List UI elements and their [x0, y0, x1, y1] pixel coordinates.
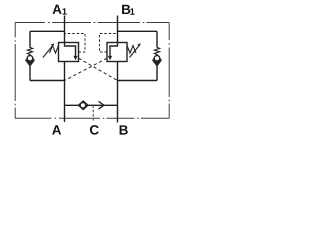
wire right check branch vertical upper	[156, 31, 158, 47]
CB1 pilot line (dashed, from A1)	[65, 34, 86, 53]
check valve V1 (left bypass, spring + ball in seat)	[26, 47, 35, 65]
CB1 adjustment arrow	[43, 43, 54, 57]
port C line (dashed stub)	[92, 105, 94, 122]
CB1 spring	[50, 46, 59, 53]
check valve V2 (right bypass, spring + ball in seat)	[153, 47, 162, 65]
flow direction arrow on bottom line	[99, 101, 105, 109]
wire A1 to A vertical lower	[64, 62, 66, 123]
wire right check branch vertical lower	[156, 64, 158, 80]
port C label	[90, 125, 99, 134]
wire left check branch bottom horizontal	[30, 80, 65, 82]
counterbalance valve CB2 envelope (right)	[107, 43, 127, 62]
CB2 pilot line (dashed, from B1)	[100, 34, 118, 53]
counterbalance valve CB1 envelope (left)	[59, 43, 79, 62]
CB2 spring	[127, 46, 136, 53]
check valve V3 on bottom line (ball in seat)	[78, 101, 88, 110]
wire B1 to B vertical lower	[117, 62, 119, 123]
cross pilot line CB2 to A side (dashed diagonal)	[65, 58, 108, 80]
CB2 adjustment arrow	[130, 43, 141, 57]
wire right check branch bottom horizontal	[118, 80, 158, 82]
wire B1 vertical upper	[117, 16, 119, 43]
port B label	[120, 125, 128, 134]
wire left check branch vertical upper	[29, 31, 31, 47]
wire left check branch top horizontal	[30, 30, 65, 32]
cross pilot line CB1 to B side (dashed diagonal)	[79, 58, 118, 80]
wire A1 vertical upper	[64, 16, 66, 43]
wire left check branch vertical lower	[29, 64, 31, 80]
node A1 label	[53, 5, 67, 15]
node B1 label	[122, 5, 134, 15]
CB1 internal flow path with arrow	[65, 43, 78, 61]
port A label	[52, 125, 61, 134]
wire bottom A-B line	[65, 104, 118, 106]
wire right check branch top horizontal	[118, 30, 158, 32]
CB2 internal flow path with arrow	[108, 43, 118, 61]
enclosure boundary (dash-dot manifold border)	[15, 23, 169, 119]
